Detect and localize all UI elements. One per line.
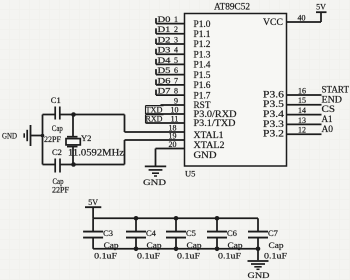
label C2 value Cap [53,176,64,186]
label C1 value 22PF [44,134,61,144]
svg-text:C4: C4 [146,228,157,238]
pin 9 wire (RST) [161,104,185,106]
wire net D0 to pin 1 [156,18,185,24]
power symbol 5V (bottom rail) [85,198,101,218]
pin number 12 [298,126,306,135]
net label START [322,85,350,95]
pin number 15 [298,96,306,105]
svg-text:13: 13 [298,116,306,125]
pin 18 wire from crystal [125,131,185,133]
svg-text:A0: A0 [322,124,334,134]
pin 40 wire (VCC) to 5V [287,12,322,22]
svg-text:C7: C7 [268,228,278,238]
capacitor C4 [126,218,146,249]
svg-text:P3.3: P3.3 [263,119,285,129]
capacitor C2 [55,159,60,173]
svg-text:0.1uF: 0.1uF [218,251,241,261]
svg-text:15: 15 [298,96,306,105]
pin name XTAL2 [194,140,225,150]
svg-text:C6: C6 [227,228,237,238]
svg-text:14: 14 [298,106,306,115]
svg-text:C1: C1 [51,95,61,105]
capacitor C5 [166,218,186,249]
svg-text:1: 1 [174,15,178,24]
node junction bottom rail C6 [215,247,220,252]
label C2 value 22PF [52,184,69,194]
svg-text:16: 16 [298,86,306,95]
svg-text:0.1uF: 0.1uF [264,251,287,261]
node junction top rail C5 [174,216,179,221]
pin 19 wire from crystal [125,139,185,141]
svg-text:U5: U5 [185,169,195,179]
svg-text:7: 7 [174,76,178,85]
pin number 3 [174,35,178,44]
svg-text:CS: CS [322,104,336,114]
net label D0 [158,14,171,24]
wire pin 12 to net A0 [287,133,322,135]
svg-text:5V: 5V [88,198,98,207]
svg-text:0.1uF: 0.1uF [177,251,200,261]
net label A0 [322,124,334,134]
net label TXD (overbar) [146,104,164,114]
svg-text:Cap: Cap [104,240,119,250]
svg-text:20: 20 [169,140,177,149]
wire XTAL2 bottom horizontal [43,140,125,165]
svg-text:11.0592MHz: 11.0592MHz [68,147,124,157]
wire crystal top lead [72,115,74,137]
svg-text:AT89C52: AT89C52 [214,1,250,11]
svg-text:Cap: Cap [228,240,243,250]
pin number 4 [174,46,178,55]
pin 20 wire (GND) [156,148,185,150]
svg-text:P1.3: P1.3 [194,49,212,59]
label C6 value Cap [228,240,243,250]
pin number 20 [169,140,177,149]
wire net D2 to pin 3 [156,39,185,45]
svg-text:D6: D6 [158,75,171,85]
pin name RST [194,100,212,110]
pin name P1.4 [194,60,212,70]
pin name P1.6 [194,80,212,90]
pin name P3.5 [263,99,285,109]
svg-text:GND: GND [194,150,218,160]
label Y2 [81,133,91,143]
svg-text:0.1uF: 0.1uF [137,251,160,261]
svg-text:P1.0: P1.0 [194,19,212,29]
svg-text:D2: D2 [158,34,171,44]
label C1 value Cap [52,123,63,133]
net label RXD (overbar) [146,113,164,123]
pin name VCC [263,17,283,27]
svg-text:0.1uF: 0.1uF [94,251,117,261]
ground label GND bottom right [248,270,270,280]
pin number 5 [174,56,178,65]
wire pin 14 to net CS [287,114,322,116]
label C5 value 0.1uF [177,251,200,261]
pin number 1 [174,15,178,24]
ground symbol left (sideways) [24,125,30,146]
svg-text:VCC: VCC [263,17,283,27]
svg-text:P1.2: P1.2 [194,39,211,49]
wire left vertical between C1 and C2 [42,115,44,165]
svg-text:GND: GND [2,131,17,141]
svg-text:C3: C3 [103,228,113,238]
wire net RXD to pin 11 [146,122,185,124]
net label D5 [158,65,171,75]
svg-text:A1: A1 [322,114,333,124]
pin name P3.6 [263,89,285,99]
wire net D1 to pin 2 [156,28,185,34]
svg-text:D3: D3 [158,45,171,55]
svg-text:5V: 5V [316,3,326,12]
crystal Y2 [66,137,80,147]
pin number 2 [174,25,178,34]
label C4 [146,228,157,238]
capacitor C7 [248,218,268,249]
label C1 [51,95,61,105]
wire net D7 to pin 8 [156,90,185,96]
ground symbol at chip GND pin [145,166,166,176]
svg-text:P1.7: P1.7 [194,90,212,100]
net label D3 [158,45,171,55]
net label D4 [158,55,172,65]
net label CS [322,104,336,114]
label C4 value 0.1uF [137,251,160,261]
wire bottom rail to ground [257,249,259,260]
svg-text:Y2: Y2 [81,133,91,143]
label Y2 value 11.0592MHz [68,147,124,157]
wire net TXD to pin 10 [146,113,185,115]
svg-text:9: 9 [174,96,178,105]
power symbol 5V (top right) [316,3,327,13]
pin number 9 [174,96,178,105]
svg-text:D0: D0 [158,14,171,24]
svg-text:P1.6: P1.6 [194,80,212,90]
pin number 13 [298,116,306,125]
net label D6 [158,75,171,85]
node junction XTAL1/crystal [71,112,76,117]
svg-text:XTAL1: XTAL1 [194,130,224,140]
svg-text:P3.5: P3.5 [263,99,285,109]
pin number 19 [169,131,177,140]
pin name P1.5 [194,70,212,80]
label C7 [268,228,278,238]
wire ground bottom rail [93,248,258,250]
svg-text:5: 5 [174,56,178,65]
pin number 16 [298,86,306,95]
svg-text:XTAL2: XTAL2 [194,140,225,150]
pin name P1.7 [194,90,212,100]
svg-text:4: 4 [174,46,178,55]
svg-text:D4: D4 [158,55,172,65]
svg-text:C2: C2 [52,147,62,157]
svg-text:P3.2: P3.2 [263,129,284,139]
wire pin 20 to ground [155,149,157,166]
capacitor C1 [55,107,60,120]
wire pin 13 to net A1 [287,123,322,125]
svg-text:P3.6: P3.6 [263,89,285,99]
label C7 value Cap [269,240,284,250]
pin name GND [194,150,218,160]
node junction XTAL2/crystal [71,162,76,167]
svg-text:D1: D1 [158,24,171,34]
label C3 [103,228,113,238]
node junction top rail C6 [215,216,220,221]
node junction bottom rail C7/ground [256,247,261,252]
svg-text:Cap: Cap [187,240,202,250]
svg-text:8: 8 [174,87,178,96]
node junction bottom rail C5 [174,247,179,252]
pin name P1.0 [194,19,212,29]
pin name P3.1/TXD [194,118,237,128]
label C6 [227,228,237,238]
svg-text:2: 2 [174,25,178,34]
wire net D4 to pin 5 [156,59,185,65]
svg-text:D7: D7 [158,86,171,96]
ground label GND left [2,131,17,141]
label C4 value Cap [147,240,162,250]
svg-text:40: 40 [298,13,306,22]
svg-text:10: 10 [171,105,179,114]
svg-text:P1.5: P1.5 [194,70,212,80]
net label D7 [158,86,171,96]
svg-text:3: 3 [174,35,178,44]
label C2 [52,147,62,157]
net label END [322,94,343,104]
pin name P1.1 [194,29,211,39]
svg-text:P3.1/TXD: P3.1/TXD [194,118,237,128]
wire net D5 to pin 6 [156,69,185,75]
label C7 value 0.1uF [264,251,287,261]
wire net D3 to pin 4 [156,49,185,55]
svg-text:GND: GND [248,270,270,280]
svg-text:START: START [322,85,350,95]
node junction ground/left wire [41,134,45,138]
pin name P1.2 [194,39,211,49]
svg-text:D5: D5 [158,65,171,75]
pin number 8 [174,87,178,96]
pin name XTAL1 [194,130,224,140]
wire net D6 to pin 7 [156,79,185,85]
svg-text:P3.4: P3.4 [263,109,285,119]
pin number 11 [171,114,179,123]
svg-text:12: 12 [298,126,306,135]
svg-text:END: END [322,94,343,104]
pin number 14 [298,106,306,115]
svg-text:P1.4: P1.4 [194,60,212,70]
svg-text:6: 6 [174,66,178,75]
svg-text:22PF: 22PF [52,184,69,194]
pin name P1.3 [194,49,212,59]
pin number 40 [298,13,306,22]
pin number 7 [174,76,178,85]
node junction bottom rail C4 [134,247,139,252]
svg-text:Cap: Cap [269,240,284,250]
svg-text:22PF: 22PF [44,134,61,144]
svg-text:Cap: Cap [147,240,162,250]
pin name P3.3 [263,119,285,129]
capacitor C6 [207,218,227,249]
node junction top rail C4 [134,216,139,221]
svg-text:GND: GND [143,177,166,187]
wire XTAL1 top horizontal [43,115,125,133]
pin number 10 [171,105,179,114]
wire 5V top rail [93,217,258,219]
wire crystal bottom lead [72,147,74,165]
svg-text:11: 11 [171,114,179,123]
IC U5 AT89C52 body [185,14,287,167]
wire pin 15 to net END [287,104,322,106]
net label D2 [158,34,171,44]
ground label GND [143,177,166,187]
label C5 [186,228,196,238]
pin number 6 [174,66,178,75]
svg-text:Cap: Cap [52,123,63,133]
pin number 18 [169,123,177,132]
IC part label AT89C52 [214,1,250,11]
wire pin 16 to net START [287,94,322,96]
pin name P3.4 [263,109,285,119]
IC reference designator U5 [185,169,195,179]
net label D1 [158,24,171,34]
ground symbol bottom right [248,261,269,269]
wire to left ground [31,135,43,137]
label C3 value 0.1uF [94,251,117,261]
label C3 value Cap [104,240,119,250]
pin name P3.2 [263,129,284,139]
net label A1 [322,114,333,124]
label C6 value 0.1uF [218,251,241,261]
svg-text:P1.1: P1.1 [194,29,211,39]
svg-text:C5: C5 [186,228,196,238]
label C5 value Cap [187,240,202,250]
capacitor C3 [83,218,103,249]
pin name P3.0/RXD [194,109,238,119]
